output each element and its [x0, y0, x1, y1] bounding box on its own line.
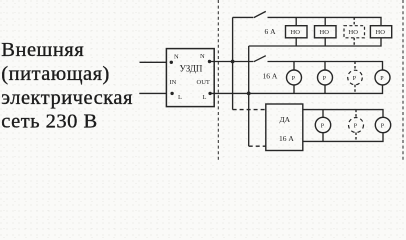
svg-text:16 А: 16 А	[279, 134, 294, 143]
svg-text:Р: Р	[292, 76, 296, 82]
wire: P3 stubs dashed	[354, 62, 356, 71]
junction: L bus / row2 return	[247, 92, 251, 96]
socket P3 row2 dashed (future)	[348, 70, 363, 85]
wire: L bus vertical	[248, 46, 250, 146]
svg-text:N: N	[200, 53, 205, 60]
wire: row2 bottom rail	[210, 85, 382, 93]
socket P1 row2	[287, 70, 302, 85]
wire: P1 stubs	[293, 62, 295, 71]
pin dot: U1 L out	[208, 92, 211, 95]
wire: P6 stubs dashed	[355, 110, 357, 118]
svg-text:ДА: ДА	[280, 115, 291, 124]
wire: НО1 stubs	[295, 17, 297, 25]
wire: row2 top rail	[268, 62, 383, 71]
node: supply network label	[1, 39, 133, 133]
wire: НО2 stubs	[324, 17, 326, 25]
svg-text:16 А: 16 А	[263, 72, 278, 81]
wire: supply L feed	[139, 92, 166, 94]
pin dot: U1 N out	[208, 60, 211, 63]
wire: row1 bottom rail	[249, 38, 381, 46]
svg-text:НО: НО	[320, 29, 330, 36]
wire: row3 bottom rail	[303, 133, 383, 142]
svg-text:НО: НО	[376, 29, 386, 36]
svg-text:L: L	[203, 94, 207, 101]
svg-text:(питающая): (питающая)	[1, 63, 110, 85]
switch SA2 blade 16A	[254, 56, 266, 62]
socket P2 row2	[318, 70, 333, 85]
device Q1 RCBO ДА body	[266, 104, 303, 151]
device Q1 labels	[279, 115, 294, 143]
svg-text:IN: IN	[170, 79, 177, 86]
wire: НО3 stubs dashed	[353, 17, 355, 25]
svg-text:Р: Р	[381, 124, 385, 130]
panel boundary dashed right	[402, 0, 404, 162]
svg-text:OUT: OUT	[197, 79, 210, 86]
load box НО 2	[315, 26, 337, 38]
wire: N bus dashed to RCBO	[233, 109, 266, 111]
svg-text:N: N	[174, 54, 179, 61]
switch SA1 blade 6A	[254, 11, 266, 17]
wire: row2 feed from U1	[210, 61, 254, 63]
svg-text:Р: Р	[380, 76, 384, 82]
svg-text:сеть 230 В: сеть 230 В	[1, 111, 97, 133]
svg-text:Внешняя: Внешняя	[1, 39, 84, 61]
wire: N bus vertical	[232, 17, 234, 109]
pin dot: U1 N in	[170, 61, 173, 64]
svg-text:Р: Р	[321, 124, 325, 130]
load box НО 4	[370, 26, 391, 38]
wire: row3 top rail	[303, 110, 383, 118]
wire: supply N feed	[140, 61, 167, 63]
svg-text:Р: Р	[354, 124, 358, 130]
wire: row1 top rail left	[233, 16, 254, 18]
pin dot: U1 L in	[170, 92, 173, 95]
junction: N bus / row2 feed	[231, 60, 235, 64]
svg-text:Р: Р	[353, 76, 357, 82]
svg-text:6 А: 6 А	[265, 27, 277, 36]
svg-text:НО: НО	[349, 29, 359, 36]
panel boundary dashed left	[217, 0, 219, 162]
load box НО 3 dashed (future)	[344, 26, 365, 38]
svg-text:НО: НО	[291, 29, 301, 36]
wire: row1 top rail right	[268, 17, 382, 25]
svg-text:Р: Р	[323, 76, 327, 82]
wire: P2 stubs	[324, 62, 326, 71]
svg-text:электрическая: электрическая	[1, 87, 133, 109]
socket P6 row3 dashed (future)	[349, 118, 364, 133]
wire: P5 stubs	[322, 110, 324, 118]
device U1 УЗДП labels	[170, 53, 210, 101]
socket P4 row2	[375, 70, 390, 85]
device U1 УЗДП body	[166, 49, 214, 107]
svg-text:УЗДП: УЗДП	[180, 64, 203, 74]
socket P7 row3	[375, 117, 390, 132]
wire: L bus dashed to RCBO	[249, 145, 266, 147]
load box НО 1	[286, 26, 308, 38]
svg-text:L: L	[178, 94, 182, 101]
socket P5 row3	[315, 117, 330, 132]
